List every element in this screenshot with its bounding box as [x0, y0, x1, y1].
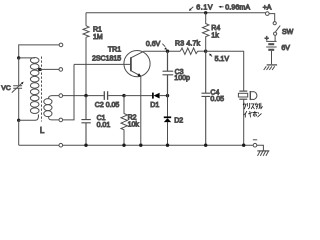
svg-text:1k: 1k: [211, 33, 219, 40]
terminal secondary top: [59, 94, 63, 98]
svg-text:10k: 10k: [128, 122, 140, 129]
svg-text:6.1V: 6.1V: [196, 5, 213, 12]
wire switch to battery: [274, 35, 276, 41]
svg-text:2SC1815: 2SC1815: [92, 56, 121, 63]
node VC/coil top junction: [17, 56, 20, 59]
battery BT 6V: [266, 40, 276, 42]
svg-text:C1: C1: [97, 115, 106, 122]
wire earphone to ground rail: [243, 99, 245, 145]
svg-text:SW: SW: [282, 29, 294, 36]
wire secondary bottom lead: [49, 116, 59, 120]
wire output node to earphone: [206, 51, 244, 91]
wire rail to chassis ground: [257, 145, 264, 151]
node collector / C3 junction: [166, 50, 169, 53]
wire antenna terminal to VC top: [19, 45, 59, 58]
wire R2 node to D1: [124, 95, 153, 97]
svg-text:L: L: [40, 126, 45, 135]
wire ground rail: [19, 144, 254, 146]
wire detector node to D2: [167, 96, 169, 117]
svg-text:0.01: 0.01: [97, 122, 111, 129]
svg-text:1M: 1M: [93, 34, 103, 41]
transistor TR1: [124, 51, 150, 77]
node R1/C1 junction: [84, 94, 87, 97]
svg-text:0.96mA: 0.96mA: [225, 5, 250, 12]
earphone crystal (クリスタルイヤホン): [239, 90, 247, 92]
node R2 junction: [122, 94, 125, 97]
wire left vertical branch (rail to base network): [85, 13, 87, 96]
wire top supply rail: [86, 12, 266, 14]
inductor L primary winding: [30, 58, 39, 114]
diode D2: [164, 116, 171, 118]
svg-text:R3 4.7k: R3 4.7k: [175, 40, 201, 47]
svg-text:0.05: 0.05: [210, 96, 224, 103]
diode D1: [152, 93, 154, 99]
node ground C1: [84, 144, 87, 147]
node detector junction: [166, 94, 169, 97]
terminal antenna (ANT): [59, 43, 63, 47]
wire collector line: [144, 50, 181, 52]
svg-text:VC: VC: [1, 85, 11, 92]
wire +A to switch: [269, 14, 275, 22]
wire secondary bottom terminal to base riser: [63, 64, 74, 120]
core ferrite dashed line: [41, 57, 43, 122]
ground chassis (battery): [267, 64, 277, 66]
terminal +A: [266, 12, 270, 16]
svg-text:D2: D2: [174, 117, 183, 124]
svg-text:5.1V: 5.1V: [215, 56, 230, 63]
svg-text:D1: D1: [150, 102, 159, 109]
wire coil tap to terminal: [40, 68, 59, 70]
svg-text:6V: 6V: [281, 45, 290, 52]
inductor L secondary winding: [44, 99, 52, 117]
wire detector line: terminal to C2: [63, 95, 104, 97]
wire secondary top lead: [49, 96, 59, 99]
label minus: [253, 139, 257, 141]
wire coil bottom lead: [19, 114, 39, 120]
terminal coil tap: [59, 68, 63, 72]
wire VC branch upper: [18, 58, 20, 85]
ground chassis (rail): [257, 150, 269, 152]
node ground earphone: [242, 144, 245, 147]
wire coil top lead: [19, 57, 35, 59]
capacitor C3: [163, 51, 174, 95]
node ground D2: [166, 144, 169, 147]
label katakana iyahon (earphone): [244, 111, 262, 117]
node ground C4: [204, 144, 207, 147]
capacitor C4: [202, 51, 211, 145]
terminal ground rail: [253, 143, 257, 147]
wire battery to chassis: [271, 51, 273, 64]
resistor R1: [83, 26, 89, 38]
node ground R2: [122, 144, 125, 147]
svg-text:C2 0.05: C2 0.05: [95, 102, 120, 109]
svg-text:TR1: TR1: [108, 46, 121, 53]
node top rail / R4 junction: [204, 11, 207, 14]
svg-text:R2: R2: [128, 114, 137, 121]
label katakana kurisutaru (crystal): [243, 103, 262, 109]
capacitor C1: [81, 96, 90, 146]
node coil bottom junction: [17, 119, 20, 122]
wire C2 to R2 node: [108, 95, 124, 97]
terminal secondary bottom: [59, 118, 63, 122]
resistor R2: [121, 96, 127, 146]
terminal earth on rail: [59, 143, 63, 147]
capacitor C2: [104, 91, 107, 100]
svg-text:+A: +A: [263, 4, 272, 11]
wire D2 to ground rail: [167, 122, 169, 145]
svg-text:R1: R1: [93, 27, 102, 34]
svg-text:100p: 100p: [174, 75, 190, 82]
wire R3 to node: [198, 50, 206, 52]
wire D1 to detector node: [159, 95, 167, 97]
svg-text:R4: R4: [211, 25, 220, 32]
svg-text:+: +: [265, 36, 269, 43]
wire VC branch lower: [18, 88, 20, 120]
capacitor VC (variable): [13, 86, 22, 89]
resistor R4: [203, 13, 209, 51]
resistor R3: [180, 48, 197, 54]
node coil tap: [38, 68, 41, 71]
switch SW: [273, 22, 276, 25]
wire coil bottom to ground rail: [18, 120, 20, 145]
node ground emitter: [139, 144, 142, 147]
node R3/R4/C4 junction: [204, 50, 207, 53]
svg-text:0.6V: 0.6V: [146, 41, 161, 48]
